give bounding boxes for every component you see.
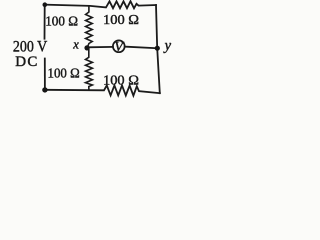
- svg-text:DC: DC: [15, 54, 38, 70]
- svg-text:y: y: [163, 38, 172, 54]
- svg-text:100 Ω: 100 Ω: [45, 14, 78, 29]
- svg-text:x: x: [72, 37, 79, 51]
- svg-text:100 Ω: 100 Ω: [103, 13, 139, 28]
- svg-text:100 Ω: 100 Ω: [48, 67, 80, 82]
- svg-text:100 Ω: 100 Ω: [103, 73, 139, 88]
- svg-text:V: V: [114, 40, 124, 55]
- svg-text:200 V: 200 V: [13, 39, 48, 56]
